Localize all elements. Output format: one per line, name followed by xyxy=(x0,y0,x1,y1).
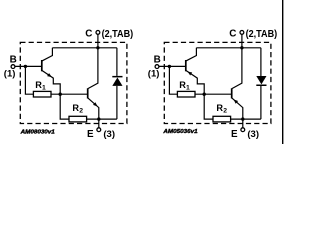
wire rail down to Q2 collector xyxy=(88,48,98,89)
svg-text:2: 2 xyxy=(223,107,227,114)
wire C riser xyxy=(97,34,99,47)
transistor Q3 emitter arrow (PNP, pointing to base) xyxy=(188,72,193,76)
svg-text:(2,TAB): (2,TAB) xyxy=(246,29,278,40)
svg-text:AM05036v1: AM05036v1 xyxy=(162,129,197,135)
wire node down to R2 xyxy=(60,94,69,119)
terminal B circle xyxy=(11,65,15,69)
wire rail down to Q4 collector xyxy=(232,48,242,89)
wire E drop to terminal (right) xyxy=(242,119,244,128)
wire diode branch bottom (right) xyxy=(260,86,262,119)
node emitter/R1/R2 junction (right) xyxy=(203,93,206,96)
wire R1 to Q2 base xyxy=(51,93,88,95)
transistor Q3 collector lead xyxy=(186,48,196,61)
node E junction (right) xyxy=(241,117,244,120)
diode D1 cathode bar xyxy=(112,76,122,78)
wire junction down to R1 (right) xyxy=(169,66,177,94)
terminal C circle xyxy=(96,31,100,35)
transistor Q3 base bar xyxy=(185,60,187,71)
transistor Q4 base bar xyxy=(231,88,233,98)
svg-text:AM08030v1: AM08030v1 xyxy=(20,129,55,135)
resistor R2 (right) xyxy=(213,116,231,122)
dashed enclosure box (right device outline) xyxy=(164,42,271,123)
wire node down to R2 (right) xyxy=(204,94,213,119)
wire diode branch top xyxy=(116,48,118,76)
wire diode branch top (right) xyxy=(260,48,262,76)
terminal C circle (right) xyxy=(240,31,244,35)
table column rule at far right xyxy=(282,0,284,144)
transistor Q2 emitter arrow (NPN) xyxy=(93,102,98,106)
svg-text:E: E xyxy=(87,129,94,140)
svg-text:B: B xyxy=(10,55,17,66)
svg-text:C: C xyxy=(85,29,92,40)
transistor Q4 emitter lead xyxy=(232,98,243,119)
svg-text:C: C xyxy=(229,29,236,40)
wire B to Q1 base xyxy=(15,65,41,67)
resistor R1 (right) xyxy=(177,91,195,97)
svg-text:E: E xyxy=(231,129,238,140)
transistor Q2 emitter lead xyxy=(88,98,99,119)
svg-text:(3): (3) xyxy=(247,129,259,140)
node E junction xyxy=(97,117,100,120)
svg-text:1: 1 xyxy=(186,85,190,92)
transistor Q3 emitter lead xyxy=(186,71,204,95)
wire emitter rail E xyxy=(87,118,117,120)
node rail/C junction (right) xyxy=(240,46,243,49)
svg-text:(2,TAB): (2,TAB) xyxy=(102,29,134,40)
transistor Q1 emitter lead xyxy=(42,71,60,95)
wire collector rail xyxy=(52,47,117,49)
transistor Q2 base bar xyxy=(87,88,89,98)
diode D2 cathode bar xyxy=(256,85,266,87)
dashed enclosure box (left device outline) xyxy=(20,42,127,123)
svg-text:(3): (3) xyxy=(103,129,115,140)
node B junction (right) xyxy=(168,65,171,68)
wire E drop to terminal xyxy=(98,119,100,128)
wire R1 to Q4 base xyxy=(195,93,232,95)
svg-text:B: B xyxy=(154,55,161,66)
node B junction xyxy=(24,65,27,68)
transistor Q1 base bar xyxy=(41,60,43,71)
node rail/C junction xyxy=(96,46,99,49)
wire emitter rail E (right) xyxy=(231,118,261,120)
wire C riser (right) xyxy=(241,34,243,47)
terminal E circle (right) xyxy=(241,128,245,132)
svg-text:2: 2 xyxy=(79,107,83,114)
wire B to Q3 base xyxy=(159,65,185,67)
wire junction down to R1 xyxy=(25,66,33,94)
node emitter1/R1/R2 junction xyxy=(59,93,62,96)
resistor R2 xyxy=(69,116,87,122)
svg-text:1: 1 xyxy=(42,85,46,92)
wire collector rail (right) xyxy=(196,47,261,49)
svg-text:(1): (1) xyxy=(4,69,16,80)
transistor Q1 emitter arrow (NPN) xyxy=(47,73,52,77)
wire diode branch bottom xyxy=(116,86,118,119)
transistor Q4 emitter arrow (PNP, pointing to base) xyxy=(234,99,239,103)
resistor R1 xyxy=(33,91,51,97)
transistor Q1 collector lead xyxy=(42,48,52,61)
terminal B circle (right) xyxy=(155,65,159,69)
diode D2 triangle (pointing down) xyxy=(256,76,266,84)
diode D1 triangle (anode, pointing up) xyxy=(112,78,122,86)
svg-text:(1): (1) xyxy=(148,69,160,80)
terminal E circle xyxy=(97,128,101,132)
